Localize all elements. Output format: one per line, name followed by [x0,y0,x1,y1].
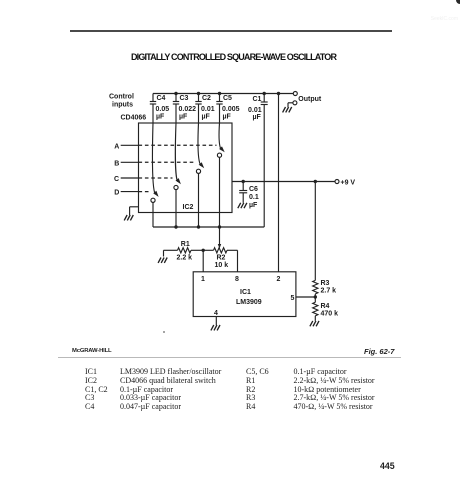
capacitor C1 [261,94,268,228]
capacitor C6 [239,182,247,203]
capacitor C5 [216,94,222,124]
ground at R4 [310,321,319,326]
McGraw-Hill footer [72,348,111,354]
svg-text:IC1: IC1 [240,289,251,296]
wire pin 2 [278,94,280,272]
wire node to R4 [314,297,316,302]
page header rule [70,30,392,32]
svg-text:1: 1 [201,276,205,283]
resistor R4 [313,302,318,316]
svg-text:470 k: 470 k [321,311,339,318]
parts list left column [85,368,221,412]
resistor R3 [313,280,318,294]
wire top rail [153,93,293,95]
svg-text:Output: Output [298,96,322,103]
svg-text:10 k: 10 k [215,262,229,269]
node +9V terminal [335,180,339,184]
node B input stub [121,161,139,163]
svg-text:8: 8 [235,276,239,283]
resistor R1 [178,248,192,253]
svg-text:0.1: 0.1 [249,194,259,201]
wire dashed control B [139,161,196,163]
svg-text:µF: µF [249,202,258,209]
svg-text:+9 V: +9 V [341,180,356,187]
svg-text:A: A [114,143,119,150]
wire pin 8 [237,250,239,271]
wire R1 to node [191,249,203,251]
parts list right column [246,368,375,412]
svg-text:0.01: 0.01 [248,107,262,114]
svg-text:Control: Control [109,94,134,101]
IC1 box LM3909 [193,272,296,317]
capacitor C2 [195,94,201,124]
ground at C6 [238,203,247,208]
svg-text:µF: µF [179,114,188,121]
svg-text:CD4066: CD4066 [121,115,147,122]
svg-text:C5: C5 [223,95,232,102]
svg-text:C4: C4 [157,95,166,102]
ground at IC2 box left [130,207,139,215]
wire +9V to R3 [314,182,316,281]
svg-text:C1: C1 [253,96,262,103]
text labels [109,94,355,318]
svg-text:0.022: 0.022 [179,106,197,113]
ground at output [283,107,292,112]
svg-text:0.005: 0.005 [222,106,240,113]
svg-text:µF: µF [156,114,165,121]
svg-text:µF: µF [202,114,211,121]
wire +9V rail [232,181,335,183]
wire dashed control A [139,144,217,146]
wire R2 to pin8 [227,249,238,251]
svg-text:2.7 k: 2.7 k [321,288,337,295]
stray mark [163,331,165,333]
wire R3 to node [314,294,316,297]
junction dots on +9V rail [242,180,317,183]
node Output terminal [288,92,297,108]
wire R4 to ground [314,316,316,321]
node C input stub [121,177,139,179]
svg-text:C6: C6 [249,186,258,193]
node D input stub [121,191,139,193]
svg-text:2: 2 [277,276,281,283]
svg-text:5: 5 [291,295,295,302]
svg-text:µF: µF [223,114,232,121]
svg-text:inputs: inputs [112,102,133,109]
watermark [431,16,458,22]
title [131,52,336,62]
ground at R1 left [164,250,178,256]
wire pin 5 [296,296,315,298]
svg-text:0.01: 0.01 [201,106,215,113]
switch under C4 (controlled by D) [151,123,159,227]
node R3/R4/pin5 junction [314,295,317,298]
page corner mark [456,0,460,4]
svg-text:2.2 k: 2.2 k [177,255,193,262]
wire dashed control C [139,177,173,179]
svg-text:IC2: IC2 [183,204,194,211]
wire node to R2 [203,249,213,251]
svg-text:C: C [114,176,119,183]
wire dashed control D [139,191,151,193]
junction dots on bus [174,225,221,228]
node R1/R2/pin1 junction [202,249,205,252]
switch under C3 (controlled by C) [174,123,181,227]
svg-text:C2: C2 [202,95,211,102]
wire pot wiper [218,227,221,249]
svg-text:B: B [114,160,119,167]
resistor R2 potentiometer [214,248,228,253]
svg-text:R1: R1 [181,241,190,248]
svg-text:C3: C3 [180,95,189,102]
svg-text:4: 4 [214,310,218,317]
svg-text:0.05: 0.05 [156,106,170,113]
wire switch bus [153,226,264,228]
IC2 box CD4066 [139,123,233,213]
svg-text:R2: R2 [217,255,226,262]
capacitor C4 [150,94,156,124]
svg-text:R3: R3 [321,280,330,287]
svg-text:D: D [114,190,119,197]
wire pin 1 [202,250,204,271]
junction dots on top rail [174,92,280,95]
wire pin 4 [215,317,217,326]
ground at pin 4 [211,325,220,330]
node A input stub [121,144,139,146]
svg-text:µF: µF [253,114,262,121]
capacitor C3 [173,94,179,124]
svg-text:LM3909: LM3909 [236,299,262,306]
svg-text:R4: R4 [321,303,330,310]
page number [380,461,395,471]
switch under C2 (controlled by B) [196,123,204,227]
switch under C5 (controlled by A) [217,123,224,227]
